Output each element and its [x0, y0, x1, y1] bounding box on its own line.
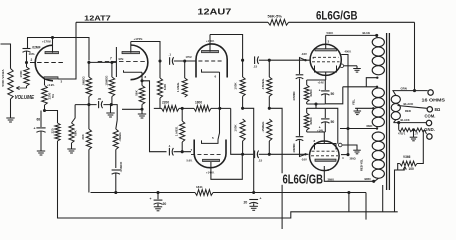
R23 label — [309, 117, 313, 125]
svg-text:20: 20 — [163, 202, 167, 206]
node C4 left — [158, 59, 161, 62]
resistor R15 33K — [86, 105, 91, 150]
R8 label — [74, 129, 78, 135]
svg-text:.15MEG.: .15MEG. — [261, 78, 265, 90]
C10 label — [331, 92, 335, 96]
pin 7 V1b — [110, 56, 112, 60]
C1 value label — [32, 45, 41, 49]
V4 beam pin — [338, 143, 357, 147]
wire BLUE plate lead — [326, 34, 377, 36]
svg-text:2: 2 — [31, 58, 33, 62]
svg-text:.5MEG: .5MEG — [82, 76, 86, 86]
T1 cathode winding tap upper — [366, 77, 378, 87]
V1b cathode lead — [141, 72, 143, 81]
resistor R24 47 ohm — [399, 128, 413, 132]
svg-text:+: + — [150, 197, 152, 201]
capacitor C6 .05MFD — [112, 170, 120, 174]
wire R8 to ground — [71, 143, 73, 146]
V1b plate bar — [122, 52, 140, 54]
node screen bus — [346, 153, 349, 156]
svg-text:12AU7: 12AU7 — [197, 8, 231, 17]
wire leak bus — [75, 105, 117, 120]
T1 primary lower winding — [372, 132, 384, 178]
resistor R7 .15MEG — [109, 62, 115, 98]
svg-text:5%: 5% — [51, 93, 55, 98]
svg-text:100K: 100K — [19, 70, 23, 78]
R19 label — [234, 124, 238, 132]
wire screen bus segment — [347, 129, 349, 155]
resistor R18 .15MEG upper — [267, 60, 272, 96]
T1 primary upper winding — [372, 38, 384, 75]
R4 label — [51, 128, 55, 133]
wire C7 right — [259, 59, 270, 61]
V1b cathode bar — [124, 70, 143, 72]
wire cath box1 bottom — [307, 102, 326, 104]
RED center tap wire — [340, 127, 378, 129]
NFB rail drop to V1a cathode — [58, 22, 76, 79]
C13 label — [292, 91, 296, 100]
ground at leak bus — [106, 105, 114, 117]
RED label — [367, 124, 373, 128]
wire plate line V1a — [28, 38, 90, 61]
svg-text:+: + — [34, 127, 36, 131]
C11 label — [331, 120, 335, 124]
C6 label — [119, 161, 123, 173]
pin 3 V3 — [328, 40, 330, 44]
V2a plate voltage — [206, 39, 215, 43]
node cathode V1b — [140, 79, 143, 82]
R15 label — [81, 133, 85, 139]
R11 label — [176, 82, 180, 92]
wire bottom rail — [59, 212, 398, 218]
V3 cathode lead — [325, 72, 327, 80]
svg-text:BLUE: BLUE — [363, 31, 371, 35]
R14 label — [174, 126, 178, 136]
C3 label — [97, 97, 102, 101]
svg-text:BLACK: BLACK — [401, 118, 410, 122]
V3 cathode voltage — [318, 80, 325, 84]
T1 core lines — [387, 33, 390, 190]
wire tap down to cathode box1 — [325, 87, 343, 104]
R17 label — [234, 82, 238, 90]
V3 beam pin — [340, 64, 357, 68]
svg-text:-16V: -16V — [301, 158, 307, 162]
T1 cathode winding tap wire — [343, 86, 378, 88]
terminal 16 ohms — [428, 90, 433, 95]
wire R6 bottom — [88, 98, 90, 105]
node bus right — [110, 61, 113, 64]
BLUE label — [363, 31, 371, 35]
pin 5 V4 — [328, 168, 330, 172]
node leak right — [110, 103, 113, 106]
wire bracket right upper — [269, 108, 282, 229]
node R17 bottom — [241, 96, 244, 110]
YEL label — [351, 99, 355, 105]
wire V1b plate to C4 — [131, 42, 160, 62]
svg-text:.27: .27 — [415, 132, 419, 136]
node secondary bottom — [397, 121, 400, 124]
svg-text:33K: 33K — [81, 133, 85, 139]
svg-text:RED: RED — [367, 124, 373, 128]
svg-text:.1MEG: .1MEG — [118, 132, 122, 142]
node V2a grid — [183, 59, 186, 62]
pin 2 V1a — [31, 58, 33, 62]
svg-text:+: + — [319, 88, 321, 92]
wire C6 to common — [115, 173, 117, 192]
C2 plus — [34, 127, 36, 131]
ground below R8 — [67, 146, 75, 153]
V4 grid1 dashed — [312, 150, 338, 152]
V4 cathode voltage — [317, 128, 324, 132]
label 12AT7 — [84, 14, 111, 23]
hum pot wiper — [403, 167, 406, 171]
C12 label — [163, 202, 167, 206]
ground at V4 beam — [353, 148, 361, 154]
svg-text:COM.: COM. — [425, 114, 436, 119]
svg-text:220: 220 — [51, 128, 55, 133]
svg-text:+0.9V.: +0.9V. — [47, 83, 55, 87]
svg-text:56K: 56K — [135, 89, 139, 95]
svg-text:+: + — [260, 197, 262, 201]
V4 grid bias label — [301, 158, 307, 162]
pin 8 V1b — [145, 75, 147, 79]
svg-text:170V.: 170V. — [186, 55, 193, 59]
wire R19 to lower grid line — [242, 141, 244, 154]
svg-text:GRN: GRN — [401, 86, 407, 90]
wire cath box1 top — [307, 79, 326, 81]
svg-text:6L6G/GB: 6L6G/GB — [316, 9, 358, 23]
node R18 bottom — [268, 96, 271, 110]
V3 grid2 dashed — [312, 61, 340, 63]
V2a plate lead — [209, 35, 211, 52]
svg-text:1800: 1800 — [195, 101, 202, 105]
V1a grid dashed line — [30, 62, 64, 64]
wire R25 to GND terminal — [425, 130, 427, 134]
V2a grid voltage — [186, 55, 193, 59]
svg-text:16 OHMS: 16 OHMS — [422, 97, 446, 102]
node BRN — [372, 180, 375, 183]
svg-text:+170V.: +170V. — [134, 37, 143, 41]
node bus left — [87, 61, 90, 64]
wire R12-R13 — [179, 107, 194, 109]
capacitor C11 50MF lower — [321, 108, 329, 132]
resistor R14 1 MEG second — [180, 108, 185, 142]
V2b envelope cup — [194, 140, 226, 168]
svg-text:V366: V366 — [403, 155, 411, 159]
V1b envelope arc — [131, 45, 148, 80]
volume pot bottom lead — [10, 100, 12, 115]
resistor R19 100K lower — [240, 119, 245, 141]
wire bias down to lower grid line — [231, 108, 242, 154]
svg-text:+14V.: +14V. — [318, 80, 325, 84]
resistor R8 68K — [69, 123, 74, 143]
wire YEL jumper — [355, 107, 374, 109]
svg-text:220Ω: 220Ω — [309, 117, 313, 125]
resistor R10 6.8K — [157, 61, 162, 98]
NFB rail wire — [76, 21, 415, 23]
R2 label — [19, 70, 23, 78]
svg-text:100K: 100K — [234, 82, 238, 90]
volume pot R1 500K body — [8, 66, 13, 100]
label 12AU7 — [197, 8, 231, 17]
V2b plate bar — [203, 159, 220, 161]
V3 screen voltage — [345, 49, 352, 53]
volume label — [15, 95, 35, 101]
V2b grid dashed — [191, 154, 222, 156]
svg-text:.05: .05 — [97, 97, 102, 101]
V3 plate bar — [315, 49, 337, 51]
svg-text:100: 100 — [409, 167, 415, 171]
V1b plate lead — [130, 42, 132, 53]
V4 envelope circle — [310, 141, 340, 171]
capacitor C4 .1 — [170, 57, 174, 65]
BLACK2 label — [401, 118, 410, 122]
label 8 — [435, 107, 441, 112]
RED tap label — [405, 109, 411, 113]
svg-text:90V.: 90V. — [119, 57, 125, 61]
V4 screen lead — [341, 154, 348, 156]
R25 label — [415, 132, 419, 136]
wire R13 to corner — [211, 107, 231, 109]
svg-text:.05MFD: .05MFD — [119, 161, 123, 173]
wire leak bus to 68K — [72, 105, 76, 123]
R3 label — [48, 92, 56, 99]
V2b plate voltage — [206, 171, 215, 175]
V3 grid1 dashed — [313, 56, 339, 58]
svg-text:2200: 2200 — [162, 101, 169, 105]
V2b cathode bracket — [202, 140, 219, 144]
R22 label — [309, 89, 313, 97]
resistor R5 56K-5% in NFB rail — [268, 19, 289, 25]
C9 label — [244, 201, 248, 205]
V3 cathode bar — [315, 66, 337, 73]
svg-text:BRN: BRN — [365, 177, 371, 181]
C8 label — [258, 159, 263, 163]
NFB rail right drop — [414, 22, 416, 90]
wire cathodyne link — [218, 108, 220, 139]
wire cathode V1a down — [44, 82, 46, 85]
resistor R13 1800 horizontal — [194, 106, 211, 112]
svg-text:.15: .15 — [258, 159, 263, 163]
resistor R12 2200 horizontal — [162, 106, 180, 112]
svg-text:1 MEG.: 1 MEG. — [174, 126, 178, 136]
ground below volume pot — [6, 115, 14, 122]
capacitor C10 50MF — [321, 80, 329, 104]
wire C4 to V2a grid — [174, 60, 192, 62]
label 6L6G/GB bottom — [283, 171, 324, 186]
V3 plate lead — [325, 35, 327, 48]
resistor R3 2200 5% — [42, 86, 48, 109]
resistor R6 .5MEG — [86, 62, 92, 98]
wire cathode node to R4 — [45, 111, 58, 124]
wire V2a plate top — [210, 35, 243, 61]
terminal 8 ohms — [427, 107, 432, 112]
svg-text:100K: 100K — [234, 124, 238, 132]
node R9 bottom — [140, 108, 143, 111]
T1 primary mid winding — [372, 88, 384, 127]
terminal GND — [427, 134, 432, 139]
node 20MF first — [156, 191, 159, 194]
svg-text:.15MEG: .15MEG — [261, 121, 265, 133]
wire cath box2 bottom — [307, 130, 326, 132]
R18 label — [261, 78, 265, 90]
wire boxes link — [315, 104, 317, 108]
svg-text:47MFD: 47MFD — [292, 91, 296, 100]
C7 label — [253, 65, 258, 69]
capacitor C13 47MFD — [296, 75, 304, 79]
node common right — [347, 191, 350, 194]
V1a plate lead — [52, 38, 54, 53]
pin 5 V2b — [212, 136, 214, 140]
R20 label — [261, 121, 265, 133]
label 6L6G/GB top — [316, 9, 358, 23]
wire to damping R — [398, 123, 400, 130]
resistor R23 220 ohm lower — [304, 108, 309, 130]
svg-text:220Ω: 220Ω — [309, 89, 313, 97]
wire grid cap chain mid — [299, 78, 301, 135]
secondary tap BLACK wire — [398, 106, 427, 109]
volume pot label — [1, 69, 5, 87]
resistor R11 1 MEG. — [182, 61, 187, 97]
wire R4 down to bottom rail — [58, 141, 60, 218]
pin 6 V2a — [215, 75, 217, 79]
capacitor C7 .15 upper — [255, 56, 259, 64]
RED-YEL label — [360, 159, 364, 171]
R24 label — [398, 132, 406, 136]
input wire — [1, 44, 11, 66]
svg-text:8Ω: 8Ω — [435, 107, 441, 112]
pin 7 V2b — [191, 148, 193, 152]
C1 lower lead — [26, 51, 28, 62]
wire C5 to V2b grid — [174, 151, 191, 153]
svg-text:.02MF: .02MF — [32, 45, 41, 49]
V3 plate voltage — [327, 31, 334, 35]
R10 label — [163, 83, 167, 90]
node leak left — [87, 103, 90, 106]
svg-text:50: 50 — [331, 92, 335, 96]
svg-text:540V.: 540V. — [327, 31, 334, 35]
wire R3 to node — [44, 108, 46, 111]
capacitor C12 20MF first — [154, 193, 163, 205]
node cathodyne bias — [218, 107, 221, 110]
node RED screen bus — [346, 127, 349, 130]
svg-text:1841: 1841 — [196, 185, 203, 189]
capacitor C3 .05 — [99, 101, 103, 108]
node V2b grid — [181, 150, 184, 153]
V1b envelope left side — [115, 47, 117, 77]
wire across to R9 — [122, 108, 142, 110]
svg-text:+14V.: +14V. — [317, 128, 324, 132]
node NFB takeoff — [413, 89, 416, 92]
svg-text:RED-YEL: RED-YEL — [360, 159, 364, 171]
V2a cathode lead — [219, 72, 221, 108]
wire common to rail node — [348, 193, 350, 212]
svg-text:+170V.: +170V. — [42, 40, 51, 44]
resistor R4 220 — [55, 123, 60, 141]
svg-text:RED: RED — [405, 109, 411, 113]
wire common end drop — [365, 193, 367, 220]
wire BRN lead — [375, 178, 383, 211]
beam resistor label — [350, 157, 356, 160]
resistor R25 .27 — [415, 128, 425, 132]
node grid V1a — [25, 61, 28, 64]
V1a plate voltage — [42, 40, 51, 44]
wire wiper to R2 — [25, 86, 28, 88]
label 16 OHMS — [422, 97, 446, 102]
R12 label — [162, 101, 169, 105]
R7 label — [105, 75, 109, 87]
wire C8 gaps — [243, 153, 270, 155]
ground below R9 — [138, 111, 146, 118]
capacitor C8 .15 lower — [255, 151, 259, 159]
capacitor C9 20MF — [249, 200, 258, 204]
resistor R2 100K grid — [24, 63, 29, 87]
secondary bottom wire — [394, 120, 427, 123]
svg-text:+170V.: +170V. — [206, 39, 215, 43]
wire box2 to V4 cathode — [323, 132, 325, 144]
wire common line — [91, 192, 367, 194]
resistor R20 .15MEG lower — [267, 119, 272, 141]
svg-text:.1: .1 — [169, 53, 172, 57]
ground below C9 — [250, 203, 258, 210]
svg-text:5.6V.: 5.6V. — [187, 159, 193, 163]
resistor R17 100K upper — [240, 60, 245, 96]
svg-text:GND.: GND. — [424, 127, 434, 132]
wire cath box2 top — [307, 108, 338, 144]
svg-text:40MFD: 40MFD — [292, 143, 296, 152]
wire to V4 grid — [269, 153, 308, 155]
node between boxes — [314, 102, 317, 105]
ground at damping divider — [410, 130, 418, 141]
BLACK label — [404, 102, 414, 106]
wire V1b cathode to C5 — [142, 81, 167, 152]
V1b plate voltage — [134, 37, 143, 41]
R21 label — [196, 185, 203, 189]
V2b plate lead — [211, 154, 242, 179]
resistor R9 56K — [139, 81, 145, 110]
V1b grid dashed — [98, 60, 147, 62]
V3 grid bias label — [301, 52, 315, 60]
ground at V3 beam — [353, 66, 361, 72]
svg-text:500K V242A: 500K V242A — [1, 69, 5, 87]
terminal COM — [426, 120, 431, 125]
svg-text:68: 68 — [37, 118, 41, 122]
hum pot left lead — [395, 164, 405, 212]
V4 plate lead — [324, 166, 373, 181]
node C6 common — [114, 191, 117, 194]
GRN label — [401, 86, 407, 90]
label COM. — [425, 114, 436, 119]
svg-text:YEL.: YEL. — [351, 99, 355, 105]
C10 plus — [319, 88, 321, 92]
node BLUE — [375, 34, 378, 38]
hum pot value — [409, 167, 415, 171]
svg-text:1 MEG.: 1 MEG. — [176, 82, 180, 92]
svg-text:68K: 68K — [74, 129, 78, 135]
V3 screen lead — [341, 55, 348, 129]
svg-text:6L6G/GB: 6L6G/GB — [283, 171, 324, 186]
C1 tolerance label — [29, 52, 35, 56]
wire R14 to lower grid node — [181, 142, 183, 152]
pin 3 V1a — [61, 80, 63, 84]
pin 4 V4 — [342, 156, 344, 160]
wire R10 to R12 — [154, 98, 162, 108]
svg-text:10%: 10% — [29, 52, 35, 56]
capacitor C14 40MFD — [296, 137, 304, 141]
resistor R21 1841 in common line — [195, 190, 213, 196]
resistor R16 .1MEG — [113, 120, 118, 150]
wire R20 to lower grid line — [268, 141, 270, 154]
